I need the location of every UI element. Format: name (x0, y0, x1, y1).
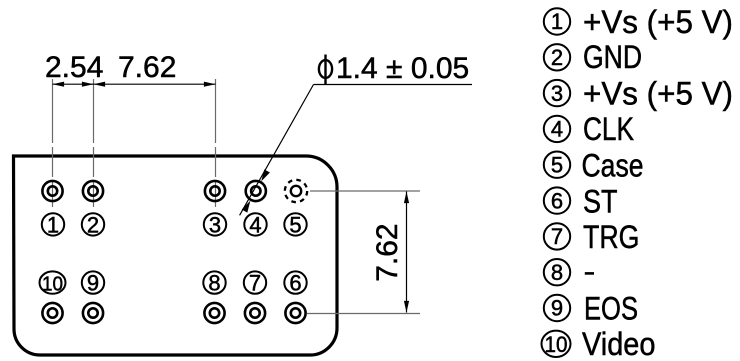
extension line pin2 centerline (93, 79, 95, 207)
svg-text:6: 6 (289, 271, 301, 296)
svg-text:2: 2 (551, 45, 563, 70)
leader arrowhead lower (242, 201, 251, 213)
pin 9 number (82, 271, 104, 296)
legend entry 7 (544, 219, 640, 255)
legend entry 4 (544, 111, 634, 147)
svg-text:7.62: 7.62 (371, 223, 404, 281)
dimension line 2.54 (53, 82, 94, 87)
legend entry 10 (542, 326, 656, 361)
legend entry 9 (544, 291, 638, 327)
svg-text:7.62: 7.62 (118, 51, 176, 84)
pin 3 hole (205, 181, 225, 201)
dimension line 7.62 vertical (404, 192, 409, 313)
legend entry 6 (544, 184, 618, 220)
svg-text:Video: Video (582, 326, 656, 361)
pin 10 number (40, 271, 66, 295)
pin 5 hole dashed (285, 180, 307, 202)
svg-text:4: 4 (551, 117, 563, 142)
svg-text:+Vs (+5 V): +Vs (+5 V) (583, 4, 733, 40)
svg-text:TRG: TRG (583, 219, 640, 255)
svg-text:10: 10 (545, 332, 568, 357)
svg-text:CLK: CLK (583, 111, 634, 147)
pin 8 hole (204, 303, 224, 323)
pin 4 number (244, 212, 266, 237)
pin 5 number (284, 212, 306, 237)
svg-text:1: 1 (47, 212, 59, 237)
pin 10 hole (42, 303, 62, 323)
legend entry 5 (544, 147, 644, 183)
extension line pin1 centerline (52, 79, 54, 207)
svg-text:ST: ST (583, 184, 618, 220)
svg-text:8: 8 (551, 260, 563, 285)
extension line pin3 centerline (215, 79, 217, 207)
svg-text:9: 9 (87, 271, 99, 296)
pin 9 hole (83, 303, 103, 323)
pin 4 hole (246, 181, 266, 201)
pin 6 hole (285, 303, 305, 323)
svg-text:2: 2 (87, 212, 99, 237)
dimension line 7.62 top (94, 82, 216, 87)
pin 1 hole (42, 181, 62, 201)
pin 7 hole (245, 303, 265, 323)
svg-text:Case: Case (582, 147, 644, 183)
legend entry 2 (544, 39, 642, 75)
pin 8 number (203, 271, 225, 296)
svg-text:EOS: EOS (584, 291, 638, 327)
extension line from pin6 hole (307, 313, 420, 315)
svg-text:9: 9 (551, 296, 563, 321)
leader arrowhead upper (261, 169, 270, 181)
pin 7 number (244, 271, 266, 296)
svg-text:1.4 ± 0.05: 1.4 ± 0.05 (336, 52, 469, 85)
svg-text:6: 6 (551, 188, 563, 213)
leader underline (314, 84, 473, 86)
svg-text:5: 5 (551, 152, 563, 177)
svg-text:7: 7 (249, 271, 261, 296)
pin 6 number (284, 271, 306, 296)
package outline (14, 156, 338, 355)
leader line dia 1.4 (240, 85, 314, 216)
svg-text:1: 1 (551, 9, 563, 34)
svg-text:3: 3 (551, 81, 563, 106)
extension line from pin5 (310, 190, 420, 192)
diameter symbol phi (319, 55, 332, 85)
svg-text:8: 8 (208, 271, 220, 296)
pin 3 number (204, 212, 226, 237)
svg-text:2.54: 2.54 (45, 51, 103, 84)
svg-text:5: 5 (289, 212, 301, 237)
legend entry 3 (544, 76, 733, 112)
pin 1 number (42, 212, 64, 237)
svg-text:10: 10 (42, 272, 63, 295)
legend entry 1 (544, 4, 733, 40)
pin 2 number (82, 212, 104, 237)
svg-text:+Vs (+5 V): +Vs (+5 V) (583, 76, 733, 112)
svg-text:4: 4 (249, 212, 261, 237)
svg-text:3: 3 (209, 212, 221, 237)
legend entry 8 (544, 259, 594, 285)
svg-text:7: 7 (551, 224, 563, 249)
pin 2 hole (83, 181, 103, 201)
svg-text:GND: GND (583, 39, 642, 75)
